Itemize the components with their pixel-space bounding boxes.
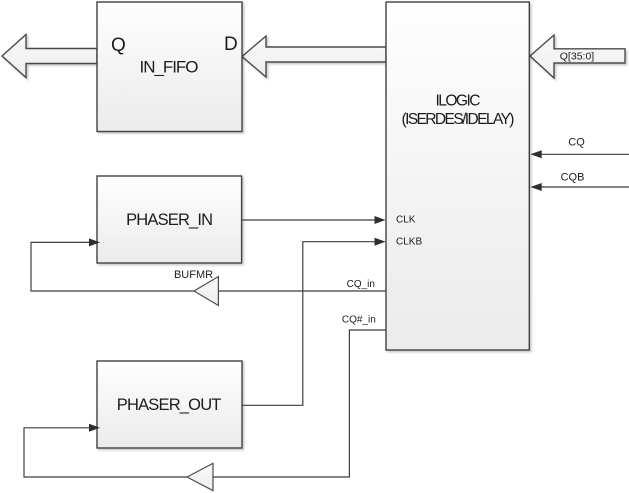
svg-text:PHASER_OUT: PHASER_OUT [117,396,222,414]
arrowhead PHASER_OUT input [89,424,100,432]
wire PHASER_IN to CLK [242,219,377,221]
svg-text:CQ#_in: CQ#_in [342,315,376,326]
svg-text:PHASER_IN: PHASER_IN [126,211,213,229]
svg-text:(ISERDES/IDELAY): (ISERDES/IDELAY) [402,111,515,128]
block arrow ILOGIC to IN_FIFO D [242,36,386,77]
svg-text:CQ: CQ [568,137,585,149]
wire BUFMR output to PHASER_IN [31,242,194,291]
block arrow Q output (left) [2,35,97,78]
arrowhead PHASER_IN input [89,238,100,246]
arrowhead CQB [530,183,541,191]
svg-text:D: D [224,34,238,55]
block ILOGIC [386,2,529,350]
svg-text:ILOGIC: ILOGIC [436,92,481,109]
svg-text:CLK: CLK [396,214,416,225]
wire PHASER_OUT to CLKB [242,242,377,406]
arrowhead CQ [530,150,541,158]
wire CQ input (right) [538,153,629,155]
arrowhead CLKB [375,238,386,246]
arrowhead CLK [375,216,386,224]
svg-text:CQB: CQB [561,172,585,184]
wire CQ#_in from ILOGIC down to buffer [213,330,386,477]
wire CQB input (right) [538,186,629,188]
svg-text:CLKB: CLKB [396,237,422,248]
svg-text:Q: Q [111,35,126,56]
buffer bottom [187,463,213,490]
wire CQ_in from ILOGIC to BUFMR [218,290,386,292]
svg-text:IN_FIFO: IN_FIFO [140,57,199,76]
buffer BUFMR [194,277,218,306]
block PHASER_IN [97,176,242,263]
svg-text:BUFMR: BUFMR [174,269,213,281]
block PHASER_OUT [97,361,242,448]
wire buffer output to PHASER_OUT [24,428,187,477]
block arrow Q[35:0] input (right) [530,35,625,78]
svg-text:Q[35:0]: Q[35:0] [560,51,595,63]
block IN_FIFO [97,2,242,132]
svg-text:CQ_in: CQ_in [347,279,375,290]
